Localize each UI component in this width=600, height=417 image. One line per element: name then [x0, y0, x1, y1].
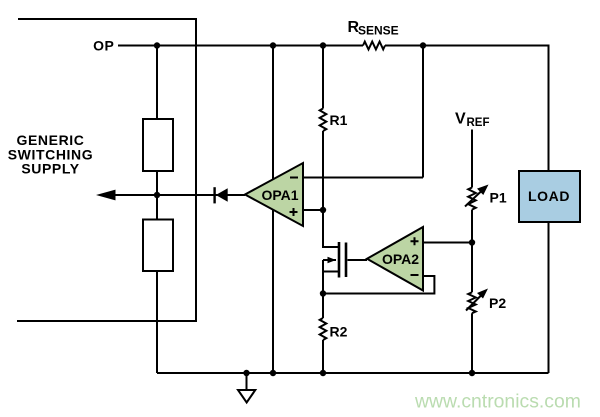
- wire Q1 gate to OPA2 output: [348, 259, 368, 261]
- svg-text:OPA1: OPA1: [261, 187, 298, 203]
- wire VREF branch (x=472): [471, 130, 473, 374]
- wire OPA2 feedback loop: [323, 276, 434, 294]
- potentiometer P2 zigzag: [468, 292, 476, 313]
- wire OPA1 non-inverting input: [303, 209, 323, 211]
- resistor R1: [320, 109, 327, 132]
- wire OPA2 non-inverting input: [423, 242, 472, 244]
- svg-text:SUPPLY: SUPPLY: [21, 161, 79, 177]
- ground: [246, 373, 248, 390]
- resistor (lower box) of divider: [143, 220, 173, 272]
- arrow into supply: [96, 190, 116, 201]
- svg-text:SENSE: SENSE: [358, 24, 399, 38]
- load block: [519, 171, 580, 222]
- wire LOAD bottom to rail: [548, 222, 550, 373]
- transistor Q1 body and source stubs: [323, 260, 338, 272]
- wire left divider branch (x=157): [156, 46, 158, 374]
- svg-text:P1: P1: [490, 190, 507, 206]
- svg-text:OPA2: OPA2: [382, 251, 419, 267]
- generic switching supply box outline: [17, 19, 196, 321]
- wire OP top rail: [118, 45, 549, 47]
- wire behind OPA1 (x=273): [272, 46, 274, 374]
- wire bottom rail: [157, 372, 549, 374]
- node junction dots: [154, 42, 475, 376]
- diode D1: [213, 187, 215, 203]
- svg-text:OP: OP: [93, 38, 114, 54]
- svg-text:REF: REF: [467, 117, 490, 129]
- svg-text:LOAD: LOAD: [528, 188, 570, 204]
- wire OPA1 output to supply feedback: [112, 194, 245, 196]
- wire R1 branch (x=323): [323, 46, 338, 374]
- potentiometer P1 wiper arrow: [465, 190, 483, 207]
- op-amp U2 OPA2 body: [367, 227, 423, 291]
- OPA2 non-inverting and inverting pin marks: [411, 237, 419, 275]
- wire OPA1 inverting input: [303, 46, 423, 178]
- svg-text:P2: P2: [489, 295, 506, 311]
- resistor R2: [320, 318, 327, 340]
- potentiometer P2 wiper arrow: [466, 293, 484, 311]
- svg-text:V: V: [455, 111, 466, 128]
- resistor RSENSE: [363, 42, 385, 50]
- svg-text:R2: R2: [330, 324, 348, 340]
- wire top-right corner down to LOAD: [548, 45, 550, 172]
- potentiometer P1 zigzag: [468, 188, 476, 210]
- transistor Q1 body arrow: [328, 257, 337, 263]
- resistor (upper box) of divider: [143, 119, 173, 171]
- svg-text:R1: R1: [330, 112, 348, 128]
- transistor Q1 MOSFET channel and gate bars: [338, 242, 341, 278]
- op-amp U1 OPA1 body: [245, 163, 303, 226]
- svg-text:www.cntronics.com: www.cntronics.com: [414, 391, 581, 413]
- OPA1 inverting and non-inverting pin marks: [290, 178, 299, 217]
- label GENERIC SWITCHING SUPPLY: [8, 132, 94, 177]
